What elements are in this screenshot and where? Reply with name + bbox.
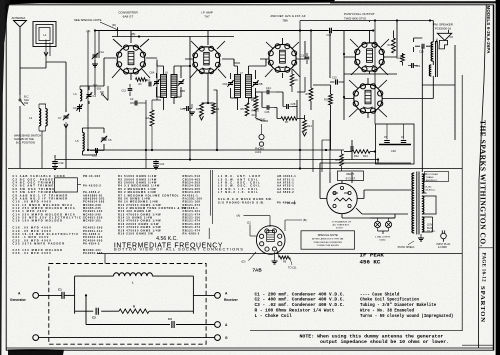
wire 6K6 pin leads bbox=[330, 31, 397, 121]
wire left osc section bbox=[20, 62, 104, 169]
wire box to receiver A bbox=[193, 294, 214, 296]
input plug and cord bbox=[441, 233, 447, 239]
wire grid bias bus bbox=[41, 131, 43, 169]
wire vertical x341 bbox=[341, 166, 343, 171]
wire enclosure stub bbox=[104, 254, 106, 264]
resistor R2 screen bbox=[150, 110, 154, 126]
wire vertical x313 bbox=[312, 120, 314, 172]
inductor L dummy bbox=[114, 273, 153, 276]
capacitor C24 bbox=[351, 146, 353, 151]
page border scan edge right bbox=[496, 0, 500, 355]
resistor R7 horizontal bbox=[281, 117, 297, 121]
wire heater to rect bbox=[377, 160, 379, 164]
terminal G generator bbox=[33, 335, 39, 341]
speaker magnet bbox=[439, 40, 448, 49]
capacitor C22 bbox=[412, 63, 414, 68]
wire bus heater y159.5 bbox=[55, 159, 378, 161]
sidebar mid rule bbox=[479, 247, 494, 249]
tube V3 2nd det AVC 1st AF 7B6 bbox=[269, 44, 296, 71]
resistor R5 diode load bbox=[245, 103, 249, 116]
special note box bbox=[301, 231, 355, 249]
wire IFT1 leads bbox=[157, 60, 191, 111]
wire IFT2 leads bbox=[231, 59, 267, 110]
resistor R9 bbox=[290, 74, 294, 86]
wire bus B y36.5 bbox=[112, 36, 234, 38]
speaker PM cone bbox=[437, 33, 451, 40]
resistor R8 socket bbox=[279, 256, 290, 259]
trimmer capacitor C8A bbox=[154, 82, 159, 84]
wire vertical x190 bbox=[189, 37, 191, 160]
dial lamp 2 bbox=[385, 221, 391, 227]
wire converter screen drop bbox=[98, 31, 100, 59]
wire speaker leads bbox=[436, 39, 438, 45]
capacitor C4b bbox=[267, 90, 269, 95]
resistor R4 bbox=[212, 103, 216, 114]
dummy network left side bbox=[74, 276, 76, 314]
capacitor C11 osc grid bbox=[128, 89, 133, 91]
trimmer capacitor C9A bbox=[228, 83, 233, 85]
capacitor C13 bbox=[187, 106, 189, 111]
power transformer T4 core bbox=[416, 172, 418, 235]
wire 6A8 pin leads bbox=[95, 31, 157, 87]
trimmer capacitor C8B bbox=[179, 82, 184, 84]
wire ground G to G bbox=[39, 337, 215, 339]
wire C24 leads bbox=[351, 140, 353, 146]
terminal A2 receiver bbox=[215, 322, 221, 328]
wire vertical x146 bbox=[145, 100, 147, 169]
padder capacitor C23 bbox=[96, 148, 98, 153]
IF transformer T2 primary winding L7 bbox=[235, 75, 241, 98]
wire vertical x95 bbox=[94, 31, 96, 87]
resistor R16 bbox=[329, 94, 333, 105]
sidebar bottom rule bbox=[462, 344, 493, 346]
power transformer T4 secondary windings bbox=[422, 174, 424, 193]
sidebar divider rule bbox=[478, 5, 486, 348]
trimmer capacitor C9B bbox=[253, 83, 258, 85]
page border scan edge left bbox=[0, 0, 5, 355]
wire lower branch bbox=[85, 295, 87, 324]
page border scan corner blob bbox=[0, 0, 10, 42]
wire vertical x266 bbox=[265, 59, 267, 63]
wire 7A7 pin leads bbox=[185, 31, 234, 81]
tube V6 rectifier 5Y3GT bbox=[327, 183, 357, 213]
resistor R18 bbox=[340, 154, 344, 166]
capacitor C10 bbox=[135, 101, 137, 106]
frame inner right rule bbox=[492, 5, 494, 350]
wire bus ground y168.5 bbox=[8, 168, 462, 170]
wire tone control link bbox=[313, 84, 331, 86]
capacitor C2 dummy bbox=[96, 308, 98, 315]
wire vertical x157 bbox=[156, 63, 158, 100]
capacitor C28 bbox=[287, 104, 289, 109]
wire rectifier leads bbox=[320, 163, 411, 218]
scan noise overlay bbox=[0, 0, 1, 1]
coil L5 S.W. osc bbox=[83, 133, 85, 152]
trimmer capacitor C7 bbox=[64, 116, 69, 118]
wire dial lamp bracket bbox=[370, 218, 395, 234]
dummy network bottom wire bbox=[75, 310, 94, 312]
wire output stage bbox=[300, 21, 455, 173]
wire vertical x217 bbox=[216, 90, 218, 150]
output transformer T3 secondary bbox=[429, 65, 431, 76]
wire C1 to box bbox=[65, 294, 75, 296]
antenna symbol bbox=[14, 21, 27, 96]
volume control R6 bbox=[254, 96, 258, 111]
capacitor C18 series bbox=[330, 28, 332, 34]
power transformer label box bbox=[425, 172, 449, 182]
electrolytic capacitor C20 block bbox=[376, 124, 415, 164]
output transformer T3 primary bbox=[431, 42, 433, 61]
terminal A generator bbox=[33, 293, 39, 299]
wire vertical x375 bbox=[374, 21, 376, 125]
resistor R15 bbox=[392, 38, 396, 53]
separator rule y253.5 bbox=[97, 253, 462, 255]
notes separator rule bbox=[250, 330, 462, 332]
capacitor C15 coupling bbox=[336, 79, 338, 84]
wire bus B+ y150 bbox=[88, 149, 344, 151]
schematic right boundary rule bbox=[461, 75, 463, 331]
capacitor C25 bbox=[267, 105, 269, 110]
resistor R1 converter grid bbox=[136, 78, 147, 82]
label box RECT 5Y3GT bbox=[338, 171, 364, 181]
wire vertical x88 bbox=[87, 31, 89, 151]
socket 7AB pins bbox=[265, 247, 269, 251]
output transformer T3 core bbox=[435, 41, 437, 77]
resistor R17 bbox=[401, 54, 405, 62]
dummy network right side bbox=[192, 276, 194, 314]
resistor R dummy bbox=[119, 309, 149, 313]
wire antenna switch down bbox=[19, 106, 21, 169]
tuning capacitor C1A bbox=[93, 55, 98, 57]
IF transformer T1 secondary winding bbox=[171, 75, 177, 98]
wire vertical x387 to C20 bbox=[386, 118, 388, 124]
capacitor C21 ground bbox=[153, 162, 159, 164]
wire vertical x422 bbox=[422, 84, 455, 86]
resistor R14 bbox=[303, 120, 307, 132]
wire vertical x234 bbox=[233, 59, 235, 63]
parts table bracket box bbox=[55, 178, 78, 192]
IF transformer T1 primary winding L6 bbox=[161, 75, 167, 98]
capacitor C16 bbox=[422, 44, 424, 49]
wire R12 ends bbox=[344, 151, 352, 153]
wire 7B6 plate riser bbox=[304, 77, 306, 92]
power transformer T4 primary winding bbox=[412, 173, 414, 233]
wire generator to C1 bbox=[39, 294, 62, 296]
trimmer capacitor C6 bbox=[102, 138, 107, 140]
rectifier internals bbox=[333, 193, 352, 201]
resistor R10 bbox=[309, 88, 313, 101]
capacitor C19 with ground bbox=[52, 162, 58, 164]
trimmer capacitor C4 bbox=[87, 95, 92, 97]
tube V1 converter 6A8GT bbox=[117, 46, 145, 74]
resistor R3 bbox=[200, 103, 204, 116]
IF transformer T2 secondary winding bbox=[246, 75, 252, 98]
page border scan edge top bbox=[0, 0, 335, 5]
capacitor C3 dummy bbox=[172, 321, 174, 328]
phono jack bbox=[259, 134, 264, 139]
coil L4 B.C. osc bbox=[80, 90, 82, 102]
socket 7AB center element bbox=[267, 231, 275, 242]
wire vertical x300 bbox=[299, 21, 301, 169]
wire socket drop lines bbox=[210, 170, 212, 216]
page border scan blotch bottom-left bbox=[8, 349, 64, 355]
tube V5 output 6K6 lower bbox=[354, 84, 382, 112]
terminal A receiver bbox=[215, 293, 221, 299]
parts table bracket right bbox=[208, 228, 210, 239]
wire vertical x330 bbox=[329, 120, 331, 172]
loop antenna L1 bbox=[33, 22, 56, 47]
capacitor C17 coupling bbox=[305, 57, 310, 59]
wire det section bbox=[256, 31, 331, 151]
trimmer capacitor C3 bbox=[77, 107, 82, 109]
tube V2 IF amplifier 7A7 bbox=[193, 47, 219, 73]
dummy antenna dashed enclosure bbox=[49, 264, 206, 345]
frame bottom double rule bbox=[6, 347, 494, 349]
coil L3 S.W. antenna bbox=[39, 109, 41, 127]
dummy network top wire bbox=[75, 275, 114, 277]
wire vertical x322 bbox=[321, 140, 323, 172]
junction dots bbox=[299, 29, 301, 31]
wire bus AVC line y30 bbox=[95, 30, 329, 32]
resistor R12 bbox=[352, 150, 370, 154]
ground transformer bbox=[420, 234, 422, 238]
socket 7AB ground bbox=[274, 252, 276, 261]
wire 7B6 pin leads bbox=[260, 38, 305, 78]
terminal G receiver bbox=[215, 335, 221, 341]
tube V4 output 6K6 upper bbox=[355, 43, 383, 71]
capacitor C1 dummy bbox=[62, 292, 64, 299]
label C12 bbox=[149, 82, 151, 87]
dial lamp 1 bbox=[374, 221, 380, 227]
wire transformer secondary taps bbox=[423, 174, 437, 232]
socket 7AB bottom view bbox=[256, 226, 285, 255]
switch S1A B.C. bbox=[19, 95, 21, 99]
wire 7A7 cathode network bbox=[207, 80, 209, 103]
